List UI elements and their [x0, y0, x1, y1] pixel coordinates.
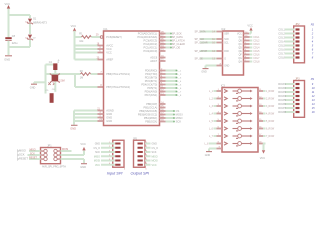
svg-text:D1: D1	[33, 18, 37, 21]
wire	[206, 64, 223, 66]
wire net 7_ROW	[258, 134, 275, 138]
svg-text:ROW8: ROW8	[278, 110, 286, 114]
svg-text:10: 10	[312, 86, 315, 90]
svg-text:L_3: L_3	[209, 105, 214, 108]
wire net COL8	[244, 60, 261, 64]
svg-text:SP_DATA: SP_DATA	[195, 31, 206, 34]
wire	[46, 64, 56, 66]
svg-text:MOSI: MOSI	[94, 160, 100, 163]
svg-text:MISO: MISO	[176, 116, 183, 120]
wire net CS	[160, 109, 180, 113]
svg-text:QE: QE	[238, 51, 242, 53]
wire net RESET	[29, 156, 41, 159]
ground	[201, 66, 208, 74]
svg-text:G: G	[224, 59, 226, 61]
pin stub	[160, 59, 166, 61]
svg-text:COL3: COL3	[278, 36, 285, 40]
svg-text:GND: GND	[106, 112, 112, 116]
wire net MISO	[160, 116, 183, 120]
svg-text:JP1: JP1	[47, 144, 52, 147]
svg-text:QH: QH	[238, 62, 242, 64]
svg-text:VCC: VCC	[80, 142, 86, 146]
svg-text:VCC: VCC	[237, 34, 242, 36]
svg-text:COL6: COL6	[278, 48, 285, 52]
svg-text:PD0(RXD): PD0(RXD)	[145, 69, 157, 73]
caption Input SPI	[107, 172, 124, 176]
svg-text:QD: QD	[238, 48, 242, 50]
svg-text:PC5(ADC5/SCL): PC5(ADC5/SCL)	[138, 32, 158, 36]
driver channel 5	[224, 119, 253, 123]
svg-text:4_ROW: 4_ROW	[266, 114, 275, 116]
svg-text:L_1: L_1	[178, 71, 182, 73]
diode D2	[25, 35, 36, 41]
wire net 5_ROW	[258, 119, 275, 123]
wire	[74, 118, 104, 121]
svg-text:JP3: JP3	[295, 77, 300, 80]
wire	[54, 82, 56, 92]
wire net SP_OE	[160, 46, 181, 50]
connector JP2	[278, 23, 314, 63]
svg-text:GND: GND	[70, 127, 76, 131]
power net VCC symbol	[5, 2, 11, 9]
power net VCC symbol	[71, 24, 77, 31]
wire	[244, 31, 252, 34]
wire	[73, 111, 75, 125]
wire	[75, 84, 104, 87]
svg-text:L_7: L_7	[178, 92, 182, 94]
svg-text:GND: GND	[4, 57, 10, 61]
wire	[75, 43, 104, 46]
wire net SP_LATCH	[195, 50, 223, 53]
svg-text:COL2: COL2	[278, 32, 285, 36]
wire net MISO	[29, 148, 41, 151]
svg-text:ROW7: ROW7	[278, 106, 286, 110]
wire	[75, 46, 104, 49]
wire net SP_DATA	[160, 35, 184, 39]
svg-text:1: 1	[312, 28, 314, 32]
wire net L_4	[160, 79, 183, 83]
svg-text:SCK: SCK	[95, 151, 100, 154]
driver channel 8	[224, 142, 253, 146]
driver channel 1	[224, 89, 253, 93]
svg-text:QG: QG	[238, 58, 242, 60]
svg-text:PB3(MOSI/OC2): PB3(MOSI/OC2)	[138, 113, 157, 117]
svg-text:JP2: JP2	[295, 23, 300, 26]
svg-text:P$: P$	[311, 78, 315, 81]
svg-text:11: 11	[312, 90, 315, 94]
svg-text:SP_CLEAR: SP_CLEAR	[195, 42, 208, 45]
svg-text:GND: GND	[30, 86, 36, 89]
svg-text:6_ROW: 6_ROW	[266, 129, 275, 131]
svg-text:SCK: SCK	[19, 153, 25, 157]
svg-text:Input SPI: Input SPI	[107, 172, 124, 176]
svg-text:MISO: MISO	[30, 148, 36, 151]
wire net 3_ROW	[258, 104, 275, 108]
svg-text:AVR_SPI_PRG_6PTH: AVR_SPI_PRG_6PTH	[42, 165, 66, 168]
svg-text:COL5: COL5	[278, 44, 285, 48]
svg-text:PD3(INT1): PD3(INT1)	[145, 79, 158, 83]
svg-text:SCK: SCK	[224, 39, 229, 41]
svg-text:VCC: VCC	[106, 51, 112, 55]
caption	[42, 165, 66, 168]
wire net COL5	[244, 49, 261, 53]
svg-text:12: 12	[312, 94, 315, 98]
svg-text:PD7(AIN1): PD7(AIN1)	[145, 93, 158, 97]
wire net SP_CLEAR	[195, 42, 223, 45]
wire	[9, 46, 31, 48]
wire	[83, 159, 85, 163]
wire net 1_ROW	[258, 89, 275, 93]
svg-text:ROW2: ROW2	[278, 86, 286, 90]
svg-text:COL8: COL8	[253, 61, 260, 64]
caption Output SPI	[131, 172, 151, 176]
svg-text:29: 29	[96, 33, 99, 36]
svg-text:L_5: L_5	[178, 85, 182, 87]
svg-text:PC4(ADC4/SDA): PC4(ADC4/SDA)	[137, 35, 157, 39]
svg-text:SCK: SCK	[176, 120, 182, 124]
svg-text:ROW3: ROW3	[278, 90, 286, 94]
svg-text:C5: C5	[46, 90, 50, 92]
svg-text:PD5(T1): PD5(T1)	[147, 86, 157, 90]
svg-text:PC6(RESET): PC6(RESET)	[106, 35, 122, 39]
IC U1 right pin labels	[137, 32, 157, 124]
IC U1 ATmega body	[104, 27, 160, 126]
ground	[30, 82, 37, 89]
wire	[75, 50, 104, 53]
svg-text:L_4: L_4	[209, 113, 214, 116]
wire	[74, 31, 76, 60]
wire	[61, 158, 85, 160]
svg-text:8: 8	[312, 56, 314, 60]
wire	[209, 147, 222, 149]
svg-text:L_8: L_8	[178, 95, 182, 97]
svg-text:PD1(TXD): PD1(TXD)	[145, 72, 157, 76]
wire net L_7	[209, 134, 222, 138]
svg-text:P$: P$	[311, 24, 315, 27]
svg-text:COL8: COL8	[278, 56, 285, 60]
svg-text:C8: C8	[12, 35, 16, 38]
svg-text:MISO: MISO	[19, 149, 26, 153]
wire net SP_LATCH	[160, 39, 185, 43]
wire net COL7	[244, 56, 261, 60]
driver channel 6	[224, 127, 253, 131]
svg-text:L_6: L_6	[178, 88, 182, 90]
svg-text:VCC: VCC	[71, 24, 77, 28]
connector JP5 Output SPI	[133, 138, 158, 170]
svg-text:ROW6: ROW6	[278, 102, 286, 106]
svg-text:L_5: L_5	[209, 120, 214, 123]
pin stub	[160, 56, 166, 58]
svg-text:MISO: MISO	[94, 155, 100, 158]
svg-text:L_2: L_2	[178, 74, 182, 76]
svg-text:PB4(MISO): PB4(MISO)	[144, 116, 157, 120]
wire net SP_CLEAR	[160, 42, 186, 46]
svg-text:10k: 10k	[79, 40, 84, 43]
driver channel 3	[224, 104, 253, 108]
svg-text:PD2(INT0): PD2(INT0)	[145, 76, 158, 80]
svg-text:PB1(OC1A): PB1(OC1A)	[143, 106, 157, 110]
wire	[74, 108, 104, 111]
svg-text:220u: 220u	[12, 42, 18, 45]
wire net L_2	[209, 97, 222, 101]
wire net COL3	[244, 42, 261, 46]
wire	[54, 70, 56, 74]
wire net L_5	[160, 83, 183, 87]
svg-text:6: 6	[124, 168, 126, 170]
wire net L_8	[160, 93, 183, 97]
wire net L_1	[160, 69, 183, 73]
pin stub	[160, 106, 166, 108]
svg-text:AVCC: AVCC	[106, 44, 113, 48]
wire net COL2	[244, 39, 261, 43]
svg-text:IC1: IC1	[104, 27, 109, 31]
wire	[45, 65, 47, 94]
connector JP3	[278, 77, 315, 117]
connector J1 pins	[41, 149, 61, 161]
wire net SP_SCK	[160, 32, 182, 36]
svg-text:14: 14	[312, 102, 315, 106]
wire net L_4	[209, 112, 222, 116]
svg-text:IC3: IC3	[221, 84, 226, 88]
svg-text:2: 2	[311, 32, 314, 36]
capacitor C5	[46, 89, 56, 103]
capacitor C4	[49, 59, 60, 70]
svg-text:3_ROW: 3_ROW	[266, 106, 275, 108]
ground	[80, 164, 87, 169]
svg-text:VCC: VCC	[152, 164, 157, 167]
svg-text:R2: R2	[80, 70, 84, 73]
resonator Q1	[48, 74, 64, 85]
svg-text:L_4: L_4	[178, 81, 182, 83]
driver channel 7	[224, 134, 253, 138]
capacitor C8	[5, 35, 18, 45]
svg-text:SER: SER	[224, 34, 229, 36]
svg-text:SCK: SCK	[30, 152, 35, 155]
wire	[29, 40, 31, 47]
wire	[263, 144, 265, 151]
wire	[8, 41, 10, 55]
connector J1 ICSP body	[41, 144, 61, 163]
IC U2 74HC595 body	[221, 27, 243, 75]
power net VCC symbol	[260, 150, 266, 160]
svg-text:AGND: AGND	[106, 109, 114, 113]
svg-text:PD4(XCK/T0): PD4(XCK/T0)	[141, 83, 157, 87]
svg-text:GND: GND	[201, 71, 207, 74]
wire net L_2	[160, 72, 183, 76]
wire net 8_ROW	[258, 142, 266, 144]
svg-text:GND: GND	[205, 154, 211, 157]
wire	[75, 57, 104, 60]
svg-text:CS: CS	[176, 109, 180, 113]
svg-text:ADC6: ADC6	[150, 56, 157, 60]
svg-text:1_ROW: 1_ROW	[266, 91, 275, 93]
wire net L_6	[160, 86, 183, 90]
svg-text:SP_OE: SP_OE	[195, 58, 204, 61]
wire net 6_ROW	[258, 127, 275, 131]
wire net COL1	[244, 35, 261, 39]
svg-text:5_ROW: 5_ROW	[266, 121, 275, 123]
svg-text:PC0(ADC0): PC0(ADC0)	[143, 49, 157, 53]
wire	[29, 24, 31, 34]
svg-text:COL4: COL4	[278, 40, 285, 44]
wire	[9, 14, 31, 16]
wire net L_7	[160, 90, 183, 94]
svg-text:ADC7: ADC7	[150, 59, 157, 63]
wire net SCK	[28, 152, 41, 155]
wire net SP_DATA	[195, 31, 223, 34]
wire	[34, 81, 46, 83]
wire	[74, 111, 104, 114]
wire	[29, 15, 31, 18]
svg-text:MBRA140T3: MBRA140T3	[33, 22, 47, 25]
svg-text:GND: GND	[106, 116, 112, 120]
ground	[4, 56, 12, 62]
svg-text:AREF: AREF	[106, 58, 113, 62]
svg-text:RESET: RESET	[19, 157, 28, 161]
svg-text:PC2(ADC2): PC2(ADC2)	[143, 42, 157, 46]
svg-text:QA: QA	[238, 36, 242, 39]
svg-text:SCK: SCK	[152, 151, 157, 154]
svg-text:13: 13	[312, 98, 315, 102]
svg-text:IC2: IC2	[221, 27, 226, 31]
wire net MOSI	[160, 113, 183, 117]
svg-text:Output SPI: Output SPI	[131, 172, 151, 176]
power net VCC symbol	[247, 24, 253, 31]
svg-text:RESET: RESET	[29, 156, 38, 159]
svg-text:QB: QB	[238, 41, 242, 43]
svg-text:SCL: SCL	[224, 43, 229, 45]
svg-text:CS_O: CS_O	[93, 147, 100, 150]
svg-text:COL1: COL1	[278, 28, 285, 32]
wire	[8, 9, 10, 38]
svg-text:PB0(ICP): PB0(ICP)	[146, 102, 157, 106]
svg-text:ROW4: ROW4	[278, 94, 286, 98]
svg-text:SP_OE: SP_OE	[172, 47, 181, 50]
svg-text:GND: GND	[106, 119, 112, 123]
svg-text:PB6(XTAL1/TOSC1): PB6(XTAL1/TOSC1)	[106, 72, 130, 76]
svg-text:GND: GND	[152, 143, 158, 146]
svg-text:GND: GND	[224, 66, 229, 68]
svg-text:PC3(ADC3): PC3(ADC3)	[143, 39, 157, 43]
wire net 4_ROW	[258, 112, 275, 116]
wire net SP_OE	[195, 58, 223, 61]
pin stub	[160, 49, 166, 51]
svg-text:4: 4	[312, 40, 314, 44]
wire net L_3	[209, 104, 222, 108]
svg-text:6: 6	[312, 48, 314, 52]
ground	[205, 149, 212, 158]
wire net L_5	[209, 119, 222, 123]
wire net MOSI	[61, 148, 72, 151]
wire net L_1	[209, 89, 222, 93]
svg-text:GND: GND	[95, 143, 101, 146]
svg-text:GND: GND	[80, 165, 86, 169]
wire	[74, 115, 104, 118]
wire	[46, 73, 76, 75]
svg-text:QF: QF	[239, 55, 243, 57]
svg-text:COL7: COL7	[278, 52, 285, 56]
driver channel 2	[224, 97, 253, 101]
driver channel 4	[224, 112, 253, 116]
svg-text:CS_O: CS_O	[152, 147, 159, 150]
svg-text:2_ROW: 2_ROW	[266, 99, 275, 101]
svg-text:5: 5	[312, 44, 314, 48]
svg-text:PD6(AIN0): PD6(AIN0)	[145, 90, 158, 94]
connector JP4 Input SPI	[93, 140, 125, 170]
svg-text:VCC: VCC	[106, 47, 112, 51]
wire net SCK	[160, 120, 182, 124]
svg-text:PB7(XTAL2/TOSC2): PB7(XTAL2/TOSC2)	[106, 85, 130, 89]
svg-text:SP_LATCH: SP_LATCH	[195, 50, 208, 53]
svg-text:ROW5: ROW5	[278, 98, 286, 102]
svg-text:VCC: VCC	[247, 24, 253, 28]
svg-text:L_8: L_8	[205, 143, 210, 146]
svg-text:6: 6	[145, 168, 147, 170]
IC U3 driver body	[221, 84, 258, 152]
wire	[74, 74, 76, 87]
resistor R1	[75, 33, 103, 43]
svg-text:MISO: MISO	[152, 155, 158, 158]
resistor R2	[75, 70, 104, 80]
wire net L_6	[209, 127, 222, 131]
IC U2 inner labels	[224, 34, 242, 68]
svg-text:QC: QC	[238, 44, 242, 46]
svg-text:15: 15	[312, 106, 315, 110]
svg-text:VCC: VCC	[95, 164, 100, 167]
harness labels	[17, 149, 28, 161]
svg-text:PC1(ADC1): PC1(ADC1)	[143, 46, 157, 50]
ground	[70, 125, 77, 130]
svg-text:VCC: VCC	[5, 2, 11, 6]
power net VCC symbol	[80, 142, 86, 150]
svg-text:3: 3	[312, 36, 314, 40]
svg-text:ROW1: ROW1	[278, 82, 286, 86]
wire net SP_CLK	[195, 38, 223, 41]
svg-text:L_6: L_6	[209, 128, 214, 131]
svg-text:1M: 1M	[80, 77, 83, 80]
svg-text:PB2(SS/OC1B): PB2(SS/OC1B)	[139, 109, 157, 113]
wire net 2_ROW	[258, 97, 275, 101]
wire net COL4	[244, 46, 261, 50]
svg-text:7: 7	[312, 52, 314, 56]
wire	[83, 151, 85, 156]
wire net COL6	[244, 53, 261, 57]
svg-text:2.5M: 2.5M	[59, 80, 64, 83]
svg-text:MOSI: MOSI	[62, 148, 68, 151]
svg-text:L_1: L_1	[209, 90, 214, 93]
svg-text:VCC: VCC	[260, 156, 266, 160]
wire	[61, 154, 85, 156]
svg-text:MOSI: MOSI	[176, 113, 183, 117]
svg-text:7_ROW: 7_ROW	[266, 136, 275, 138]
wire net L_3	[160, 76, 183, 80]
wire net L_8	[205, 142, 223, 146]
svg-text:16: 16	[312, 110, 315, 114]
svg-text:D2: D2	[33, 37, 37, 39]
svg-text:PB5(SCK): PB5(SCK)	[145, 120, 157, 124]
svg-text:9: 9	[312, 82, 314, 86]
svg-text:22p: 22p	[58, 59, 60, 63]
pin stub	[160, 102, 166, 104]
svg-text:L_2: L_2	[209, 98, 214, 101]
svg-text:RCK: RCK	[224, 51, 229, 53]
IC U1 left pin labels	[106, 35, 130, 123]
diode D1	[25, 18, 47, 25]
svg-text:L_3: L_3	[178, 78, 182, 80]
svg-text:MOSI: MOSI	[152, 160, 158, 163]
svg-text:L_7: L_7	[209, 135, 214, 138]
